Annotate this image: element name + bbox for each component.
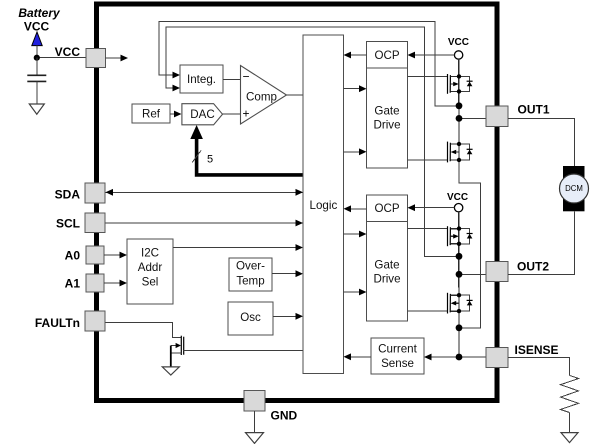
pin VCC bbox=[86, 49, 106, 68]
pin SCL bbox=[85, 213, 105, 233]
wire FAULTn to open-drain transistor bbox=[106, 323, 182, 338]
wire Ref to DAC bbox=[170, 113, 175, 115]
comparator Comp bbox=[241, 66, 287, 125]
wire Logic to Gate Drive 1 (b) bbox=[344, 151, 360, 153]
wire OCP2 to Logic bbox=[351, 208, 367, 210]
wire internal VCC stub bbox=[106, 57, 122, 59]
svg-text:A0: A0 bbox=[65, 249, 81, 263]
transistor Q1 open-drain bbox=[171, 336, 303, 367]
svg-text:SDA: SDA bbox=[55, 187, 81, 201]
wire I2C Addr Sel to Logic bbox=[173, 247, 296, 249]
integrator U-Integ bbox=[180, 65, 223, 93]
wire OUT1 feedback loop to integrator bbox=[159, 21, 459, 106]
wire ISENSE node to pin bbox=[459, 356, 486, 358]
svg-text:−: − bbox=[242, 69, 249, 83]
wire ISENSE pin to sense resistor bbox=[508, 358, 570, 376]
svg-text:Addr: Addr bbox=[138, 261, 163, 274]
svg-text:+: + bbox=[242, 107, 249, 121]
svg-text:OCP: OCP bbox=[374, 202, 399, 215]
ground bbox=[246, 433, 264, 444]
wire half-bridge 1 rail bbox=[458, 59, 460, 118]
capacitor C1 bbox=[27, 58, 46, 104]
transistor Q-LS1 (low side OUT1) bbox=[408, 142, 473, 163]
svg-text:Over-: Over- bbox=[236, 259, 265, 272]
wire Current Sense to Logic bbox=[351, 356, 371, 358]
wire bbox=[36, 46, 38, 58]
wire Logic to Gate Drive 2 (a) bbox=[344, 233, 360, 235]
svg-text:Ref: Ref bbox=[142, 108, 161, 121]
wire A1 to I2C Addr Sel bbox=[104, 282, 120, 284]
pin A0 bbox=[86, 246, 104, 264]
wire Osc to Logic bbox=[273, 315, 296, 317]
block Logic bbox=[303, 35, 344, 374]
wire Comp output to Logic bbox=[287, 94, 304, 96]
svg-text:GND: GND bbox=[271, 409, 298, 423]
node OUT1 junction bbox=[456, 115, 463, 122]
DAC U-DAC bbox=[182, 104, 223, 125]
wire Logic to Gate Drive 1 (a) bbox=[344, 88, 360, 90]
block Gate Drive top bbox=[367, 68, 408, 168]
svg-text:OUT1: OUT1 bbox=[518, 103, 550, 117]
svg-text:VCC: VCC bbox=[448, 37, 469, 48]
svg-text:DCM: DCM bbox=[565, 184, 583, 193]
node OUT1 feedback junction bbox=[456, 102, 463, 109]
wire A0 to I2C Addr Sel bbox=[104, 254, 120, 256]
wire Logic to Gate Drive 2 (b) bbox=[344, 291, 360, 293]
block Osc bbox=[228, 302, 273, 335]
wire VCC to OCP1 bbox=[415, 54, 454, 56]
transistor Q-HS2 (high side OUT2) bbox=[408, 226, 473, 246]
transistor Q-HS1 (high side OUT1) bbox=[408, 74, 473, 94]
wire SDA bidirectional bbox=[106, 191, 304, 193]
svg-text:Current: Current bbox=[378, 343, 417, 356]
pin A1 bbox=[86, 274, 104, 292]
wire ISENSE node to Current Sense bbox=[432, 356, 459, 358]
motor DCM bbox=[560, 166, 589, 211]
node low-side join junction bbox=[456, 324, 463, 331]
ground bbox=[162, 367, 179, 375]
reference Ref bbox=[132, 104, 170, 123]
wire motor to OUT2 bbox=[508, 211, 575, 274]
wire bbox=[37, 57, 86, 59]
wire bbox=[569, 413, 571, 433]
svg-text:Integ.: Integ. bbox=[187, 73, 216, 86]
bus 5-bit DAC control bbox=[190, 125, 303, 175]
node junction dot bbox=[34, 55, 40, 61]
ground bbox=[29, 104, 44, 114]
wire OUT2 node to pin bbox=[459, 273, 486, 275]
wire VCC to OCP2 bbox=[415, 207, 454, 209]
wire OUT2 feedback loop to integrator bbox=[166, 27, 459, 256]
pin SDA bbox=[85, 183, 105, 203]
svg-text:Gate: Gate bbox=[374, 105, 399, 118]
svg-text:VCC: VCC bbox=[24, 20, 50, 34]
node OUT2 feedback junction bbox=[456, 253, 463, 260]
wire SCL to Logic bbox=[106, 222, 304, 224]
svg-text:VCC: VCC bbox=[447, 192, 468, 203]
pin FAULTn bbox=[85, 311, 105, 331]
svg-text:OUT2: OUT2 bbox=[517, 260, 549, 274]
svg-text:Sense: Sense bbox=[381, 357, 414, 370]
wire OUT1 to motor bbox=[508, 118, 575, 166]
wire Integ to Comp minus bbox=[223, 79, 241, 81]
pin OUT2 bbox=[486, 262, 508, 282]
svg-text:Battery: Battery bbox=[18, 6, 61, 20]
wire Over-Temp to Logic bbox=[272, 273, 296, 275]
svg-text:Drive: Drive bbox=[373, 273, 400, 286]
block Over-Temp bbox=[229, 258, 272, 291]
svg-text:VCC: VCC bbox=[55, 45, 81, 59]
pin OUT1 bbox=[486, 106, 508, 127]
svg-text:Drive: Drive bbox=[373, 119, 400, 132]
svg-text:Temp: Temp bbox=[236, 275, 264, 288]
pin GND bbox=[244, 391, 265, 412]
svg-text:5: 5 bbox=[207, 154, 213, 166]
svg-text:SCL: SCL bbox=[56, 216, 80, 230]
svg-text:Logic: Logic bbox=[310, 199, 338, 212]
svg-text:OCP: OCP bbox=[374, 49, 399, 62]
svg-text:Gate: Gate bbox=[374, 259, 399, 272]
node ISENSE junction bbox=[456, 354, 463, 361]
svg-text:A1: A1 bbox=[65, 277, 81, 291]
svg-text:DAC: DAC bbox=[190, 108, 214, 121]
transistor Q-LS2 (low side OUT2) bbox=[408, 293, 473, 314]
block I2C Addr Sel bbox=[127, 239, 173, 304]
wire GND pin to ground bbox=[254, 411, 256, 433]
block OCP top bbox=[367, 42, 408, 69]
pin ISENSE bbox=[486, 348, 508, 368]
resistor R-sense bbox=[561, 375, 579, 412]
block OCP bottom bbox=[367, 195, 408, 221]
wire OUT1 node to pin bbox=[459, 117, 486, 119]
svg-text:ISENSE: ISENSE bbox=[515, 343, 559, 357]
ground bbox=[561, 433, 578, 443]
svg-text:Sel: Sel bbox=[142, 276, 159, 289]
battery VCC supply arrow bbox=[32, 32, 42, 46]
wire low-side 1 source to ISENSE node (bypass) bbox=[459, 160, 480, 328]
node OUT2 junction bbox=[456, 271, 463, 278]
block Gate Drive bottom bbox=[367, 221, 408, 321]
wire half-bridge 2 rail bbox=[458, 212, 460, 311]
svg-text:Comp: Comp bbox=[246, 90, 277, 103]
block Current Sense bbox=[371, 338, 424, 374]
wire DAC to Comp plus bbox=[223, 113, 241, 115]
IC boundary border bbox=[97, 4, 498, 401]
wire OCP1 to Logic bbox=[351, 54, 367, 56]
svg-text:I2C: I2C bbox=[141, 247, 159, 260]
svg-text:FAULTn: FAULTn bbox=[35, 316, 80, 330]
svg-text:Osc: Osc bbox=[240, 311, 261, 324]
